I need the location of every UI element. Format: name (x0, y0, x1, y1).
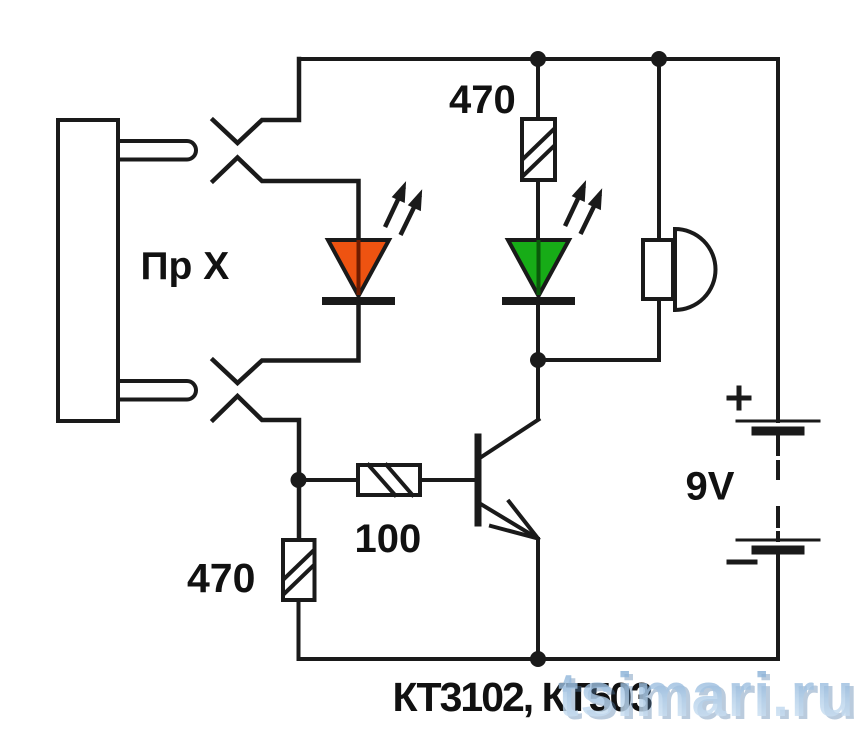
battery GB1 top lead (776, 59, 780, 421)
svg-text:470: 470 (187, 555, 255, 601)
wire emitter to bottom rail (536, 539, 540, 659)
LED VD1 cathode bar (326, 297, 391, 305)
svg-text:100: 100 (355, 517, 422, 561)
resistor R2 100 body (358, 465, 420, 495)
battery GB1 bottom cell long plate (737, 539, 819, 542)
transistor VT1 collector (479, 420, 539, 459)
battery minus sign (729, 560, 755, 565)
contact SW1 lower chevron + wire to LED VD1 (213, 158, 359, 241)
wire buzzer to node C (538, 299, 659, 360)
fuse holder bottom pin (118, 381, 196, 400)
node B junction dot (291, 472, 307, 488)
transistor VT1 base bar (475, 437, 482, 523)
buzzer BA1 wire from top rail (657, 59, 661, 240)
battery GB1 top cell short plate (756, 427, 800, 436)
node E junction dot (530, 651, 546, 667)
battery GB1 bottom cell short plate (756, 546, 800, 555)
resistor R3 470 body (283, 540, 315, 600)
LED VD2 emission arrow 1 (566, 182, 586, 225)
battery GB1 top cell long plate (737, 420, 819, 423)
contact SW2 upper chevron + wire to LED VD1 cathode (213, 303, 359, 383)
wire node A to R1 (536, 59, 540, 119)
contact SW1 upper chevron + wire to top rail (213, 59, 299, 143)
wire top rail (299, 57, 778, 61)
node C junction dot (530, 352, 546, 368)
LED VD1 internal lead (357, 242, 361, 293)
battery GB1 inter-cell dashed link (776, 436, 780, 540)
LED VD2 emission arrow 2 (582, 190, 602, 232)
svg-text:470: 470 (449, 78, 516, 122)
buzzer BA1 body (643, 240, 673, 299)
svg-text:tsimari.ru: tsimari.ru (558, 661, 856, 730)
LED VD2 cathode bar (506, 297, 571, 305)
node D junction dot (651, 51, 667, 67)
wire node B to R2 (299, 478, 358, 482)
LED VD2 green body (508, 240, 569, 296)
resistor R2 hatch (369, 465, 413, 495)
wire VD2 cathode to node C (536, 303, 540, 360)
wire R2 to base (420, 478, 474, 482)
LED VD1 emission arrow 1 (386, 183, 406, 226)
wire bottom rail (299, 657, 779, 661)
battery plus sign (729, 388, 749, 408)
fuse holder top pin (118, 141, 196, 160)
resistor R1 470 body (522, 119, 555, 180)
transistor VT1 emitter with arrow (479, 503, 537, 538)
fuse holder body XS1 (58, 120, 118, 421)
resistor R1 hatch (524, 130, 553, 175)
LED VD1 orange body (328, 240, 389, 296)
svg-text:9V: 9V (686, 465, 735, 509)
svg-text:Пр X: Пр X (141, 245, 230, 288)
node A junction dot (530, 51, 546, 67)
wire R1 to LED VD2 (536, 180, 540, 240)
wire R3 to bottom rail (297, 600, 301, 659)
battery GB1 bottom lead (776, 554, 780, 659)
resistor R3 hatch (285, 551, 313, 593)
transistor VT1 emitter arrow barbs (491, 502, 538, 539)
wire node C to transistor collector (536, 360, 540, 419)
LED VD1 emission arrow 2 (402, 191, 422, 233)
buzzer BA1 dome (675, 229, 716, 310)
contact SW2 lower chevron + wire down to node B (213, 396, 299, 540)
LED VD2 internal lead (537, 242, 541, 293)
